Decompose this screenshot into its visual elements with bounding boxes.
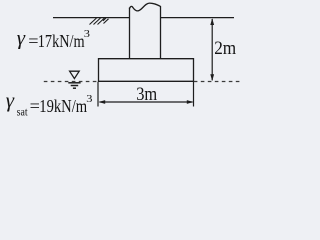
svg-text:2m: 2m: [214, 39, 237, 59]
svg-text:17kN/m: 17kN/m: [38, 31, 85, 51]
svg-text:γ: γ: [17, 25, 26, 49]
svg-text:19kN/m: 19kN/m: [39, 96, 87, 116]
svg-text:3: 3: [84, 29, 90, 40]
svg-text:sat: sat: [17, 107, 29, 118]
svg-text:γ: γ: [6, 88, 15, 112]
svg-text:3: 3: [86, 94, 92, 105]
svg-text:3m: 3m: [136, 85, 158, 105]
